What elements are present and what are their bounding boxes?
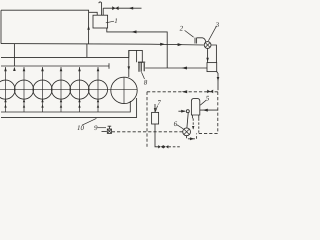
wire pump6 riser to tank [187, 113, 188, 128]
label 2 leader [185, 30, 194, 37]
wire collecting main L3 [1, 56, 129, 58]
box7 top stub [154, 104, 156, 112]
arrow left on overflow line [129, 7, 134, 10]
label 1 leader [106, 21, 114, 23]
dashed enclosure left edge [146, 92, 148, 147]
arrow left on tank outlet [131, 30, 137, 33]
dashed tank outlet a [192, 118, 194, 129]
dashed drain line [168, 146, 180, 148]
cyl5 riser [79, 67, 81, 112]
turbo top manifold [129, 50, 143, 62]
arrow down pump3 outlet [206, 58, 209, 62]
exhaust fitting flanges [138, 62, 145, 72]
cylinder 6 [88, 80, 107, 99]
label 8 leader [142, 72, 145, 79]
wire overflow line [103, 7, 141, 9]
arrow left on cooler return [181, 67, 187, 70]
tank inlet fitting [186, 110, 189, 113]
dashed oil suction line [112, 131, 183, 133]
turbo vertical line [123, 77, 125, 103]
wire inlet header L4 [1, 65, 109, 67]
cyl2 arrows [23, 67, 26, 107]
tank legs [192, 115, 198, 118]
vent pipe second line [102, 8, 104, 15]
cyl4 arrows [60, 67, 63, 107]
cooler 4 [207, 63, 217, 72]
svg-text:3: 3 [215, 21, 220, 29]
svg-text:8: 8 [144, 79, 148, 87]
pump 3 [204, 42, 211, 49]
dashed enclosure right edge [217, 92, 219, 134]
wire left riser [0, 10, 2, 43]
cyl6 arrows [97, 67, 100, 107]
drain valve a [158, 145, 163, 148]
wire pump3 down to cooler [207, 48, 209, 62]
arrow up on riser [87, 26, 90, 30]
dashed oil line top [147, 91, 218, 93]
valve on overflow line [112, 6, 118, 10]
dashed pump6 discharge [187, 133, 197, 138]
wire riser mid [86, 44, 88, 58]
arrow right on L2 first [160, 43, 165, 46]
engine block outer bottom [1, 98, 137, 117]
label 5 leader [200, 100, 206, 105]
cock 9 stem [108, 126, 112, 129]
cylinder center line [0, 89, 137, 91]
svg-text:9: 9 [94, 124, 98, 132]
cyl5 arrows [78, 67, 81, 107]
wire main delivery line L2 [1, 44, 204, 45]
cyl6 riser [97, 67, 99, 112]
svg-text:2: 2 [180, 25, 184, 33]
inlet header end cap [108, 63, 110, 69]
valve on oil top line [207, 90, 213, 94]
wire turbo downcomer [128, 50, 130, 77]
svg-text:6: 6 [174, 120, 178, 128]
cylinder 4 [51, 80, 70, 99]
arrow down into turbo [128, 66, 131, 70]
drain valve b [163, 145, 168, 148]
arrow right on pump6 discharge [190, 137, 194, 140]
box7 drain stub [155, 124, 158, 147]
svg-text:7: 7 [157, 99, 161, 107]
arrow down on cooler outlet [217, 77, 220, 81]
arrow down into box7 [154, 108, 156, 112]
expansion tank 1 [93, 15, 108, 28]
cyl4 riser [60, 67, 62, 112]
wire riser left inlet [13, 44, 15, 66]
svg-text:1: 1 [114, 17, 118, 25]
label 7 leader [155, 106, 157, 112]
dashed bottom run [199, 132, 218, 134]
cyl1 riser [5, 67, 7, 112]
wire tank outlet to mixing point [107, 28, 167, 68]
engine block inner bottom [1, 101, 130, 112]
arrow right on L2 second [178, 43, 183, 46]
cylinder 2 [14, 80, 33, 99]
wire cooler outlet down [217, 72, 218, 91]
tank inlet line [178, 110, 185, 112]
wire pump3 to cooler right [211, 45, 216, 63]
cylinder 5 [70, 80, 89, 99]
arrow left on oil top line [182, 90, 188, 93]
label 10 leader [82, 118, 96, 125]
cylinder risers with arrows [6, 67, 99, 112]
dashed tank outlet b [198, 118, 200, 133]
arrow up below inlet header [13, 67, 16, 71]
thermostat element 2 [195, 38, 206, 44]
cyl3 arrows [41, 67, 44, 107]
arrow right into tank fitting [181, 110, 186, 113]
wire tank feed [89, 12, 98, 15]
wire riser to expansion tank [88, 10, 90, 43]
drain cock 9 [102, 130, 107, 132]
cylinder 3 [33, 80, 52, 99]
cyl2 riser [23, 67, 25, 112]
cylinder 1 [0, 80, 15, 99]
cyl1 arrows [4, 67, 7, 107]
cyl3 riser [42, 67, 44, 112]
filter box 7 [152, 112, 159, 124]
wire return into tank 5 [200, 109, 218, 111]
oil pump 6 [183, 128, 191, 136]
svg-text:10: 10 [77, 124, 85, 132]
svg-text:5: 5 [206, 94, 210, 102]
gravity tank 5 [191, 98, 199, 115]
label 3 leader [208, 26, 216, 41]
arrow down tank outlet [192, 126, 194, 130]
label 9 leader [98, 127, 106, 129]
label 6 leader [177, 125, 183, 129]
vent pipe [99, 2, 102, 15]
arrow left into tank 5 [203, 109, 208, 112]
turbocharger circle 8 [111, 77, 137, 103]
wire cooler return line [145, 67, 207, 69]
wire top header line L1 [1, 9, 89, 11]
